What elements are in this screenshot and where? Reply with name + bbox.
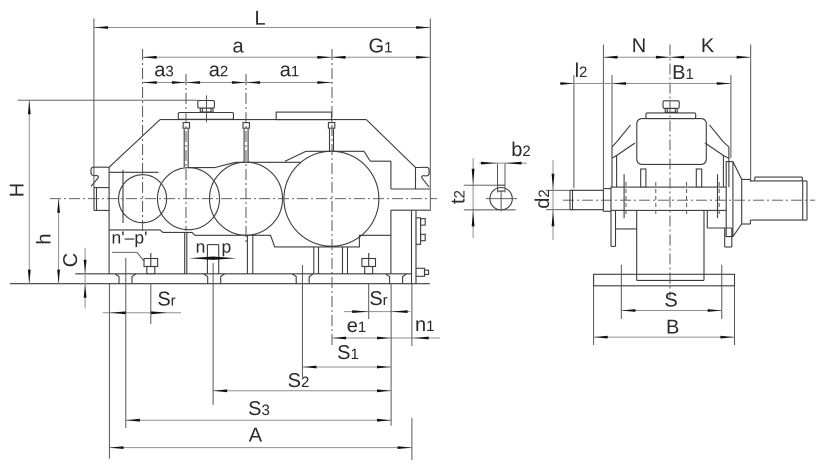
svg-text:B: B [666, 316, 679, 338]
svg-text:S: S [664, 289, 677, 311]
svg-text:n1: n1 [415, 314, 434, 336]
svg-text:a1: a1 [280, 59, 299, 81]
svg-text:a2: a2 [209, 59, 228, 81]
svg-text:b2: b2 [511, 139, 530, 161]
svg-text:S1: S1 [337, 342, 359, 364]
svg-text:d2: d2 [532, 189, 554, 208]
svg-text:a: a [232, 35, 244, 57]
svg-text:A: A [249, 424, 263, 446]
svg-text:t2: t2 [448, 190, 470, 204]
svg-text:K: K [701, 35, 715, 57]
svg-text:h: h [34, 233, 56, 244]
svg-text:n: n [196, 237, 206, 257]
svg-text:C: C [60, 253, 82, 267]
svg-text:S2: S2 [288, 370, 310, 392]
svg-text:H: H [7, 183, 29, 197]
svg-text:p: p [222, 237, 232, 257]
svg-text:G1: G1 [369, 35, 393, 57]
svg-text:N: N [632, 35, 646, 57]
svg-text:a3: a3 [154, 59, 173, 81]
svg-text:L: L [254, 8, 265, 30]
svg-text:e1: e1 [347, 315, 366, 337]
svg-text:l2: l2 [575, 60, 588, 82]
svg-text:n'–p': n'–p' [112, 227, 148, 247]
svg-text:B1: B1 [672, 62, 694, 84]
svg-text:S3: S3 [248, 398, 270, 420]
svg-text:Sr: Sr [157, 288, 175, 310]
svg-text:Sr: Sr [369, 288, 387, 310]
